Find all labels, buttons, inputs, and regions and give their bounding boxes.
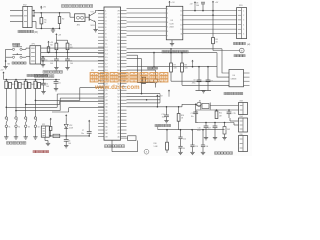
wire JR1 to Q1 base (85, 16, 89, 18)
transistor VT2 with base resistor (6, 79, 8, 81)
svg-text:LM358: LM358 (231, 79, 237, 81)
wire filter rail (127, 66, 218, 68)
svg-text:C15: C15 (233, 113, 236, 115)
capacitor C15 (228, 110, 230, 112)
ground below S4 (33, 136, 37, 138)
+5V for XP2 (50, 119, 52, 121)
svg-text:9012: 9012 (12, 84, 16, 86)
svg-text:www.dzsc.com: www.dzsc.com (94, 84, 140, 91)
wire reset rail (156, 98, 158, 107)
resistor R12 (50, 121, 52, 126)
wire MCU right y58 drop (127, 58, 142, 60)
svg-text:15: 15 (180, 15, 182, 17)
transistor VT5 with base resistor (35, 79, 37, 81)
svg-text:104: 104 (46, 86, 49, 88)
wire bus lower right 4 (127, 102, 161, 104)
wire bottom long (196, 109, 239, 111)
svg-text:2003: 2003 (169, 27, 173, 29)
svg-text:ULN: ULN (170, 23, 174, 25)
svg-text:470u: 470u (197, 130, 201, 132)
transistor VT4 with base resistor (25, 79, 27, 81)
circled number 3 (144, 149, 149, 154)
wire R1 bottom (40, 24, 42, 29)
svg-text:S4: S4 (38, 127, 40, 129)
label transistor row (27, 74, 29, 76)
svg-text:104: 104 (162, 117, 165, 119)
svg-text:6: 6 (243, 34, 244, 36)
resistor R1 (40, 13, 42, 18)
wire VT2 output down (5, 96, 7, 117)
capacitor C16 electrolytic (205, 123, 207, 127)
label sensor circuit (224, 92, 227, 94)
wire branch x141 (141, 83, 143, 94)
svg-text:3: 3 (167, 17, 168, 19)
U3 ground stub (171, 40, 173, 44)
inline diode VD3 (53, 134, 60, 137)
svg-text:104: 104 (50, 63, 53, 65)
svg-text:C14: C14 (183, 139, 186, 141)
resistor R7 pullup (170, 48, 172, 50)
wire staircase A to sensor (222, 49, 229, 73)
keyboard wire 1 to IC (41, 47, 104, 49)
svg-text:2: 2 (167, 13, 168, 15)
wire resonator stub (196, 105, 201, 107)
svg-text:13: 13 (180, 24, 182, 26)
ground below cap stack (178, 151, 182, 153)
ground below button bus (3, 66, 7, 68)
wire bus lower right 2 (127, 96, 161, 98)
capacitor C13 (166, 107, 168, 115)
svg-text:R10: R10 (154, 143, 157, 145)
svg-text:VT1: VT1 (91, 12, 94, 14)
svg-text:16: 16 (180, 10, 182, 12)
svg-text:R2: R2 (62, 19, 64, 21)
wire to XS4 (230, 120, 239, 122)
bus U3 to XS1 (183, 10, 237, 12)
U4 right stubs (244, 72, 250, 74)
svg-text:3: 3 (243, 20, 244, 22)
keyboard wire 2 to IC (41, 51, 104, 53)
wire eeprom rail left leg (44, 137, 46, 140)
node +5V (40, 12, 42, 14)
capacitor C12 electrolytic (195, 104, 197, 106)
capacitor C6 (65, 136, 67, 140)
svg-text:5: 5 (243, 29, 244, 31)
svg-text:C16: C16 (195, 146, 198, 148)
svg-text:DW: DW (227, 129, 230, 131)
resistor R8 pullup (181, 52, 183, 54)
+5V for C7 (88, 121, 90, 123)
svg-text:10u: 10u (191, 116, 194, 118)
svg-text:R11: R11 (219, 113, 222, 115)
wire lower rail (158, 129, 225, 131)
svg-text:1.0M: 1.0M (154, 146, 158, 148)
+5V for diode (65, 116, 67, 118)
wire XS2 pin2 out (32, 15, 34, 17)
svg-text:104: 104 (70, 63, 73, 65)
svg-text:XS1: XS1 (239, 5, 243, 7)
wire S2 to ground (15, 128, 17, 137)
svg-text:4148: 4148 (69, 127, 73, 129)
ground below C13 (164, 120, 168, 122)
power rail bottom (198, 122, 234, 124)
wire XS2 pin3 out (32, 21, 36, 23)
svg-text:(M): (M) (247, 44, 251, 46)
sensor switch S1 (5, 117, 7, 119)
crystal cap stack (180, 130, 182, 137)
ground below S1 (4, 136, 8, 138)
diode VD2 vertical (65, 118, 67, 125)
capacitor C17 (214, 123, 216, 127)
wire lower eeprom rail (49, 135, 89, 137)
capacitor C7 electrolytic (88, 123, 90, 131)
resistor R13 (143, 77, 146, 83)
+5V reset (156, 96, 158, 98)
label sensor switch circuit (7, 142, 10, 145)
capacitor C1 keyboard (42, 60, 44, 62)
MCU left pins (98, 10, 104, 12)
sensor switch S3 (25, 117, 27, 119)
+5V supply top-left (40, 7, 42, 9)
svg-text:VD2: VD2 (69, 125, 72, 127)
keyboard wire 3 to IC (41, 56, 104, 58)
svg-text:C6: C6 (68, 141, 70, 143)
wire VT3 output down (15, 96, 17, 117)
common ground C9 C10 (196, 90, 212, 92)
wire R7 down to sensor (170, 72, 172, 81)
svg-text:R8: R8 (185, 65, 187, 67)
svg-text:S2: S2 (18, 127, 20, 129)
branch wire to MCU pin row 2 (15, 110, 17, 112)
transistor Q1 (88, 14, 90, 21)
capacitor C9 (198, 67, 200, 80)
capacitor C3 (67, 52, 69, 59)
connector XP2 (41, 126, 49, 137)
fan motor M1 (240, 48, 245, 53)
bus MCU to U3 ULN2003 (127, 8, 167, 10)
svg-text:6: 6 (167, 31, 168, 33)
svg-text:9012: 9012 (22, 84, 26, 86)
label small right (148, 67, 150, 69)
label power supply circuit (215, 152, 218, 154)
branch wire to MCU pin row 3 (25, 104, 27, 106)
resistor R6 (212, 38, 215, 44)
svg-text:5: 5 (167, 26, 168, 28)
keyboard wire 4 to IC (41, 60, 104, 62)
svg-text:14: 14 (180, 20, 182, 22)
svg-text:104: 104 (196, 5, 199, 7)
label SB1 (13, 43, 15, 45)
MCU U1 body (104, 7, 121, 140)
resistor R5 (67, 40, 69, 43)
long wire MCU to right upper (127, 48, 223, 50)
ground eeprom rail (46, 142, 50, 144)
connector XS2 (steam generator) (23, 6, 32, 27)
+5V small label right of ULN (194, 2, 196, 4)
svg-text:B2: B2 (199, 101, 201, 103)
+5V top right (212, 2, 214, 4)
svg-text:30: 30 (183, 148, 185, 150)
svg-text:R4: R4 (50, 45, 52, 47)
opto indicator (197, 102, 201, 106)
svg-text:S3: S3 (28, 127, 30, 129)
wire to opto circle (181, 104, 183, 107)
capacitor C8 top right (201, 1, 205, 3)
ground below C1 (41, 64, 45, 66)
label steam generator (M) (18, 30, 21, 33)
svg-text:XP1: XP1 (32, 43, 35, 45)
svg-text:104: 104 (68, 143, 71, 145)
resonator B2 (202, 104, 209, 109)
svg-text:9013: 9013 (91, 25, 95, 27)
svg-text:C16: C16 (198, 128, 201, 130)
branch wire to MCU pin row 1 (6, 107, 8, 109)
label MCU circuit (105, 145, 108, 148)
wire SB2 to connector (22, 56, 26, 58)
ground below C3 (65, 67, 69, 69)
wire lower return (36, 27, 60, 29)
branch wire to MCU pin row 4 (35, 100, 37, 102)
ground below C17b (201, 151, 205, 153)
ground below C2 (54, 67, 58, 69)
ground below Q1 (93, 29, 97, 31)
pushbutton SB2 (12, 56, 14, 58)
wire XS2 pin1 out (32, 10, 34, 12)
wire label stem (157, 127, 159, 130)
thermistor K1 (153, 79, 157, 83)
wire MCU right y82 (138, 82, 154, 84)
wire S4 to ground (34, 128, 36, 137)
wire staircase B to sensor (217, 53, 229, 78)
svg-text:10u: 10u (81, 133, 84, 135)
svg-text:C7: C7 (82, 130, 84, 132)
ground below C5 (54, 88, 58, 90)
svg-text:R16: R16 (181, 115, 184, 117)
svg-text:C5: C5 (59, 83, 61, 85)
ground below S3 (24, 136, 28, 138)
svg-text:12: 12 (180, 29, 182, 31)
capacitor C5 row (55, 79, 57, 81)
red small label bottom left (33, 151, 35, 153)
svg-text:R7: R7 (174, 65, 176, 67)
wire to XS2 pin 3 (10, 21, 23, 23)
svg-text:S1: S1 (9, 127, 11, 129)
relay JR1 box (75, 14, 86, 22)
transistor VT3 with base resistor (15, 79, 17, 81)
crystal B1 (128, 136, 136, 141)
ground top-left (52, 28, 54, 30)
svg-text:C10: C10 (210, 81, 213, 83)
svg-text:U4: U4 (233, 75, 235, 77)
wire MCU right y55 drop (127, 54, 138, 56)
label stepper motor (M) (234, 42, 237, 44)
resistor R11 (215, 111, 218, 119)
wire to XS2 pin 2 (10, 15, 23, 17)
ground below C6 (64, 145, 68, 147)
svg-text:C1: C1 (45, 59, 47, 61)
MCU right pins (121, 10, 127, 12)
svg-text:9012: 9012 (31, 84, 35, 86)
svg-text:11: 11 (181, 34, 183, 36)
svg-text:104: 104 (206, 146, 209, 148)
wire feeder to power block (195, 110, 197, 123)
ground below C4 (41, 91, 45, 93)
svg-text:(M): (M) (34, 32, 38, 34)
wire S3 to ground (25, 128, 27, 137)
pushbutton SB1 (12, 48, 14, 50)
wire bus collector vertical (159, 94, 161, 103)
wire MCU mid right second (127, 69, 156, 71)
svg-text:470u: 470u (192, 83, 196, 85)
wire +5V down to bus (212, 4, 214, 38)
+5V small mid right (168, 91, 170, 93)
wire left bus of buttons (6, 48, 13, 50)
+5V on filter rail (192, 61, 194, 63)
wire vertical link x154 (153, 53, 155, 67)
svg-text:1: 1 (167, 8, 168, 10)
long wire MCU to right lower (127, 52, 218, 54)
wire main top (34, 12, 70, 14)
wire R6 to fan motor (212, 44, 214, 51)
svg-text:C9: C9 (193, 80, 195, 82)
wire S1 to ground (5, 128, 7, 137)
svg-text:C13: C13 (161, 114, 164, 116)
label keyboard switch circuit (35, 75, 38, 78)
capacitor C4 row (43, 79, 45, 81)
+5V above U3 (169, 2, 171, 4)
resistor R3 keyboard pullup (48, 44, 50, 47)
connector XS1 stepper motor (237, 8, 247, 39)
capacitor C16b (192, 130, 194, 145)
wire extra rail to MCU (52, 111, 69, 113)
svg-text:4: 4 (243, 24, 244, 26)
capacitor C10 (207, 67, 209, 80)
ground below C16b (190, 151, 194, 153)
+5V rail middle (55, 34, 57, 36)
svg-text:C12: C12 (191, 113, 194, 115)
wire VT4 output down (25, 96, 27, 117)
wire Q1 collector to IC (95, 10, 97, 12)
wire to Q1 base (69, 13, 71, 17)
sensor IC U4 (229, 70, 244, 87)
driver U3 ULN2003 (166, 6, 183, 40)
svg-text:1: 1 (243, 10, 244, 12)
wire VT5 output down (34, 96, 36, 117)
wire crystal stub (121, 137, 128, 139)
connector XP1 keyboard (30, 46, 41, 64)
capacitor C2 (55, 52, 57, 59)
wire bus lower right 3 (127, 99, 161, 101)
sensor switch S4 (34, 117, 36, 119)
capacitor C17b (202, 130, 204, 145)
wire SB1 to connector (22, 48, 26, 50)
label reset circuit (155, 124, 158, 126)
resistor R4 (55, 40, 57, 43)
ground row power (204, 137, 208, 139)
svg-text:7: 7 (167, 35, 168, 37)
wire to XS2 pin 1 (10, 10, 23, 12)
+5V rail transistor row (3, 73, 5, 75)
svg-text:4: 4 (167, 22, 168, 24)
watermark row 1 (90, 73, 168, 82)
label indicator drive circuit (43, 71, 46, 74)
ground below S2 (14, 136, 18, 138)
svg-text:C17: C17 (208, 128, 211, 130)
svg-text:2: 2 (243, 15, 244, 17)
resistor R2 (59, 12, 61, 14)
label cooling fan (234, 55, 236, 57)
label steam generator control circuit (62, 5, 65, 8)
wire bus lower right 1 (127, 93, 161, 95)
sensor switch S2 (15, 117, 17, 119)
wire Q1 emitter to ground (95, 22, 97, 30)
wire R8 down to sensor (181, 72, 183, 85)
wire crystal loop (137, 141, 139, 152)
label stepper driver circuit (162, 50, 165, 53)
resistor R16 (178, 107, 180, 114)
zener DW1 (224, 123, 226, 127)
svg-text:U3: U3 (171, 20, 173, 22)
+5V pullup keyboard (48, 42, 50, 44)
